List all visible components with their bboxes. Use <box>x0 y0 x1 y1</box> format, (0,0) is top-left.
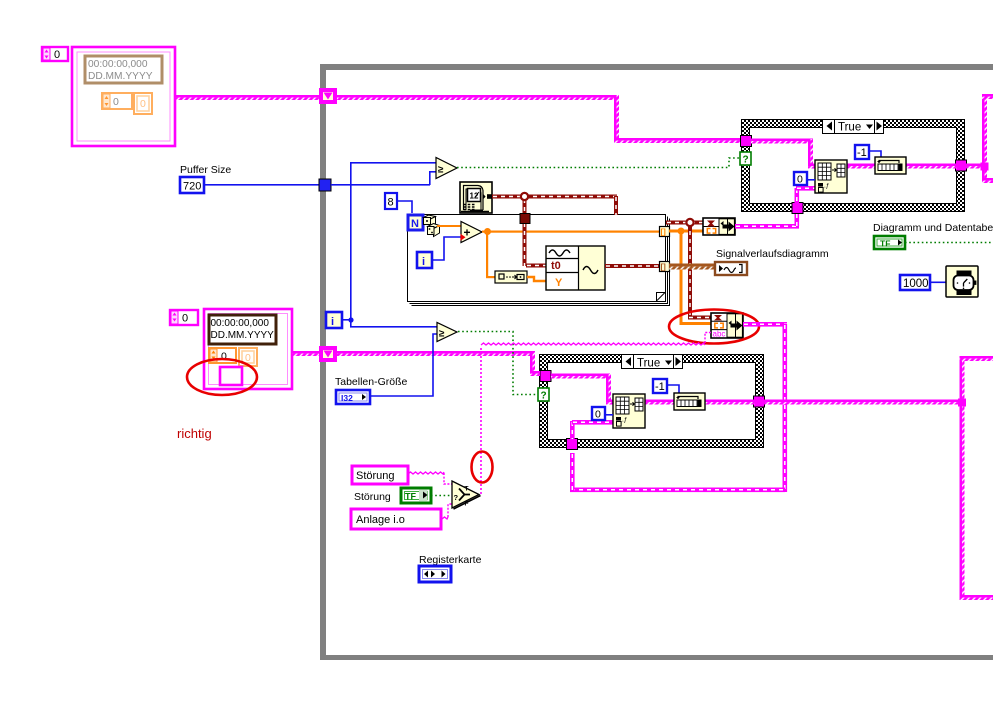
wire i to add <box>432 237 461 260</box>
svg-text:F: F <box>465 501 469 508</box>
I32 terminal <box>336 390 370 404</box>
numeric constant 0 (CS2) <box>592 407 605 421</box>
svg-text:?: ? <box>454 493 459 502</box>
cluster constant C1 (timestamp, top-left) <box>72 47 175 146</box>
string constant Störung <box>352 466 408 484</box>
CS2 bottom tunnel <box>567 439 578 450</box>
delete-from-array icon A1 <box>815 160 847 193</box>
numeric constant outside C1 <box>42 47 68 61</box>
red annotation ellipse around empty constant <box>187 359 257 395</box>
svg-text:i: i <box>422 256 425 268</box>
svg-text:N: N <box>411 218 419 230</box>
svg-text:0: 0 <box>221 351 227 363</box>
svg-text:[]: [] <box>661 228 667 237</box>
comparator U1 (greater or equal, top) <box>436 158 457 179</box>
svg-text:00:00:00,000: 00:00:00,000 <box>88 59 148 70</box>
numeric control inside C1 <box>102 93 132 109</box>
wire -1 to R1 <box>869 151 881 157</box>
iteration terminal i (for loop) <box>417 252 432 268</box>
case structure CS2 (middle) <box>540 355 764 448</box>
svg-text:Y: Y <box>555 277 563 289</box>
wire timestamp from loop to icons <box>666 219 712 320</box>
wire 0 to A2 <box>605 414 613 416</box>
wire Build Waveform output <box>605 264 661 268</box>
svg-text:DD.MM.YYYY: DD.MM.YYYY <box>211 330 275 341</box>
numeric constant outside C2 <box>170 310 198 325</box>
wire tunnel to comparator U1 <box>331 171 436 186</box>
svg-text:0: 0 <box>595 409 601 421</box>
svg-text:?: ? <box>541 391 547 402</box>
wire I32 to comparator U2 <box>370 334 437 396</box>
CS2 wiring (cluster array) <box>551 374 755 405</box>
rotate 1D array icon R2 <box>674 393 705 410</box>
wire 0 to A1 <box>807 179 815 181</box>
numeric constant -1 (CS1) <box>855 145 869 159</box>
comparator U2 (greater or equal, middle) <box>437 323 457 342</box>
wire GetDate output (timestamp, dark red) <box>492 193 618 268</box>
svg-text:0: 0 <box>140 98 146 110</box>
svg-text:t0: t0 <box>551 260 561 272</box>
wire cluster C1 to shift register <box>175 95 320 98</box>
svg-text:Diagramm und Datentabelle: Diagramm und Datentabelle <box>873 222 993 234</box>
svg-text:720: 720 <box>183 181 201 193</box>
svg-text:T: T <box>465 486 469 493</box>
svg-text:[]: [] <box>661 263 667 272</box>
svg-text:I32: I32 <box>341 393 353 403</box>
indexing tunnel (waveform) on for loop <box>660 262 670 272</box>
wire P1 output to CS1 bottom tunnel <box>735 213 799 229</box>
svg-text:Störung: Störung <box>354 491 391 503</box>
svg-text:i: i <box>331 316 334 328</box>
wire i to comparators <box>342 162 437 328</box>
CS2 selector label <box>622 355 683 370</box>
svg-text:TF: TF <box>880 239 890 249</box>
svg-text:Tabellen-Größe: Tabellen-Größe <box>335 376 408 388</box>
shift register SR2 <box>319 346 337 362</box>
numeric constant -1 (CS2) <box>653 379 667 393</box>
wire TF to select (green dotted) <box>431 495 452 497</box>
tunnel (dark red) on for loop border <box>520 214 530 224</box>
wire 720 to tunnel <box>204 184 320 186</box>
CS1 right tunnel <box>956 160 967 171</box>
wire Störung to select <box>408 472 452 484</box>
CS1 string-array wire from bottom tunnel <box>795 186 816 203</box>
dice (random number) <box>424 215 440 237</box>
waveform chart terminal <box>715 262 747 275</box>
wire add output (orange) <box>482 228 662 278</box>
wire CS1 output to right edge bracket <box>966 94 993 183</box>
timestamp indicator inside C2 <box>209 315 276 344</box>
CS2 string-array wire from bottom tunnel <box>570 420 614 439</box>
conversion node P2 (string version, circled) <box>711 313 743 339</box>
wire P2 output <box>570 322 787 492</box>
wire Anlage to select <box>442 504 452 519</box>
rotate 1D array icon R1 <box>875 157 906 174</box>
wire C2 to SR2 <box>292 351 320 354</box>
svg-text:≥: ≥ <box>439 329 445 340</box>
CS2 selector terminal ? <box>538 388 549 402</box>
wire SR1 to case structure CS1 <box>337 95 741 143</box>
svg-text:0: 0 <box>797 174 803 186</box>
svg-text:Puffer Size: Puffer Size <box>180 164 231 176</box>
svg-text:True: True <box>838 122 861 134</box>
red annotation ellipse on select output wire <box>472 452 493 483</box>
string constant (empty, circled) inside C2 <box>220 367 242 385</box>
indexing tunnel (orange) on for loop <box>660 227 670 237</box>
add function with coercion dot <box>461 222 483 243</box>
wire 8 to N <box>397 201 412 213</box>
tunnel (blue) on while loop border <box>319 179 331 191</box>
wire orange array from tunnel <box>669 228 712 326</box>
numeric constant 0 (CS1) <box>794 172 807 186</box>
svg-text:Signalverlaufsdiagramm: Signalverlaufsdiagramm <box>716 248 829 260</box>
svg-text:1000: 1000 <box>903 278 929 290</box>
case structure CS1 (top right) <box>742 120 965 212</box>
svg-text:abc: abc <box>713 330 726 339</box>
svg-text:0: 0 <box>54 49 60 61</box>
wire -1 to R2 <box>667 385 679 393</box>
label 1000 <box>900 275 930 290</box>
wait (ms) function <box>946 266 978 297</box>
CS1 left tunnel <box>741 136 752 147</box>
CS2 right tunnel <box>754 396 765 407</box>
N count terminal <box>408 215 423 230</box>
iteration terminal i (while loop) <box>326 312 342 328</box>
svg-text:8: 8 <box>388 197 394 209</box>
enum terminal Registerkarte <box>419 566 451 582</box>
wire U1 output (green dotted) to CS1 selector <box>457 158 740 168</box>
delete-from-array icon A2 <box>613 394 645 428</box>
CS1 bottom tunnel <box>792 203 803 214</box>
svg-text:00:00:00,000: 00:00:00,000 <box>211 318 270 329</box>
numeric constant 720 <box>180 177 204 193</box>
svg-text:Registerkarte: Registerkarte <box>419 554 482 566</box>
svg-text:.ƒ: .ƒ <box>622 417 628 424</box>
Get Date/Time In Seconds icon <box>460 182 492 213</box>
conversion node P1 (timestamp+array to string) <box>703 218 735 235</box>
svg-text:richtig: richtig <box>177 426 212 441</box>
svg-text:-1: -1 <box>655 381 665 393</box>
svg-text:12: 12 <box>470 192 479 201</box>
for loop frame <box>408 215 670 306</box>
svg-text:TF: TF <box>405 492 416 502</box>
svg-text:DD.MM.YYYY: DD.MM.YYYY <box>88 71 153 82</box>
svg-text:0: 0 <box>182 313 188 325</box>
CS1 wiring (cluster array) <box>751 139 957 169</box>
wire select output (string, up to P2) <box>481 333 711 495</box>
timestamp indicator inside C1 <box>85 56 162 83</box>
wire scale to Y input <box>527 277 546 281</box>
svg-text:?: ? <box>743 155 749 166</box>
select function <box>452 481 481 509</box>
while loop border <box>320 64 993 660</box>
small numeric box inside C1 <box>134 93 152 114</box>
svg-text:0: 0 <box>245 352 251 364</box>
Build Waveform node <box>546 246 605 290</box>
svg-text:.ƒ: .ƒ <box>824 183 830 190</box>
small numeric box inside C2 <box>239 348 257 366</box>
CS1 selector label <box>823 120 884 134</box>
svg-text:0: 0 <box>113 96 119 108</box>
svg-text:≥: ≥ <box>438 165 444 176</box>
wire SR2 to CS2 <box>337 351 540 376</box>
wire dice to add <box>437 225 461 227</box>
svg-text:Störung: Störung <box>356 470 395 482</box>
boolean terminal TF (Diagramm) <box>874 236 905 249</box>
svg-text:True: True <box>637 358 660 370</box>
shift register SR1 <box>319 88 337 104</box>
CS2 left tunnel <box>540 371 551 382</box>
cluster constant C2 (timestamp, middle-left) <box>204 309 292 389</box>
numeric control inside C2 <box>209 348 236 363</box>
string constant Anlage i.o <box>351 509 441 529</box>
wire 1000 to wait <box>930 282 946 284</box>
numeric constant 8 <box>385 193 397 209</box>
wire TF (green dotted) to right edge <box>905 242 993 244</box>
boolean terminal TF (Störung) <box>401 488 431 503</box>
svg-text:Anlage i.o: Anlage i.o <box>356 514 405 526</box>
wire CS2 output to right trunk <box>764 356 993 600</box>
wire waveform array to chart terminal <box>669 264 716 267</box>
wire U2 output (green dotted) to CS2 selector <box>458 332 538 395</box>
scale/ramp icon <box>495 271 527 283</box>
red annotation ellipse around P2 <box>669 310 759 344</box>
svg-text:-1: -1 <box>857 147 867 159</box>
CS1 selector terminal ? <box>740 152 751 166</box>
